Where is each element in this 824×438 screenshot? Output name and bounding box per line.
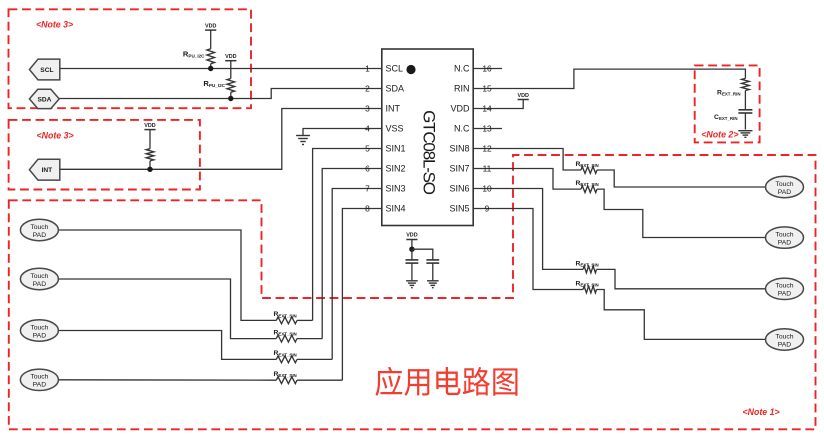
resistor R_EXT_SIN (SIN5) — [583, 286, 597, 293]
wire resistor pad4 to SIN4 — [297, 379, 342, 381]
wire SIN2 pin 6 down-left — [322, 169, 382, 339]
svg-text:SDA: SDA — [37, 96, 51, 103]
wire R to SCL junction — [210, 64, 212, 69]
svg-text:REXT_SIN: REXT_SIN — [274, 371, 297, 378]
node INT input tag — [29, 159, 59, 180]
node SCL input tag — [29, 59, 59, 80]
wire touch pad 3 to resistor — [58, 331, 276, 360]
svg-text:5: 5 — [365, 143, 370, 153]
svg-text:PAD: PAD — [778, 341, 792, 348]
wire resistor pad3 to SIN3 — [297, 358, 332, 360]
wire C2 to ground — [432, 263, 434, 280]
svg-text:CEXT_RIN: CEXT_RIN — [714, 114, 737, 121]
svg-text:Touch: Touch — [775, 333, 793, 340]
svg-text:VDD: VDD — [406, 232, 417, 238]
power VDD (decoupling) — [406, 239, 417, 241]
touch pad 1 — [20, 219, 58, 240]
wire touch pad 1 to resistor — [58, 230, 276, 320]
resistor R_EXT_SIN (SIN6) — [583, 266, 597, 273]
touch pad 3 — [20, 320, 58, 341]
svg-text:REXT_SIN: REXT_SIN — [274, 350, 297, 357]
wire VDD to cap junction — [411, 240, 413, 250]
resistor R_PU_I2C (SCL) — [207, 49, 215, 64]
wire R to INT junction — [149, 161, 151, 169]
svg-text:VSS: VSS — [386, 124, 404, 134]
note 1 region outline — [9, 155, 816, 429]
note 3 region box (SCL/SDA pull-ups) — [9, 9, 252, 108]
resistor R_EXT_SIN (SIN7) — [581, 186, 597, 193]
wire SCL tag to pin 1 — [60, 68, 382, 70]
resistor R_EXT_SIN (pad4) — [276, 377, 297, 384]
junction on INT — [147, 167, 152, 172]
svg-text:VDD: VDD — [450, 104, 470, 114]
touch pad 7 — [766, 278, 804, 299]
op IC U1 GTC08L-SO body — [382, 49, 473, 226]
svg-text:REXT_SIN: REXT_SIN — [576, 180, 599, 187]
capacitor C2 (decoupling) — [426, 259, 439, 261]
svg-text:REXT_SIN: REXT_SIN — [576, 161, 599, 168]
wire SDA tag to pin 2 — [59, 89, 382, 99]
capacitor C_EXT_RIN — [738, 109, 752, 111]
wire VDD to R_PU_I2C (SCL) — [210, 30, 212, 49]
svg-text:PAD: PAD — [33, 281, 47, 288]
svg-text:SIN7: SIN7 — [449, 164, 469, 174]
wire resistor pad1 to SIN1 — [297, 319, 313, 321]
wire pin 14 to VDD — [473, 100, 523, 109]
wire N.C pin 13 stub — [473, 128, 502, 130]
wire R to SDA junction — [230, 92, 232, 98]
wire SIN3 pin 7 down-left — [332, 189, 382, 360]
svg-text:REXT_RIN: REXT_RIN — [717, 90, 740, 97]
junction on SCL — [208, 66, 213, 71]
svg-text:REXT_SIN: REXT_SIN — [274, 311, 297, 318]
power VDD (INT pull-up) — [144, 129, 155, 131]
touch pad 8 — [766, 329, 804, 350]
svg-text:SIN8: SIN8 — [449, 144, 469, 154]
node SDA io tag — [29, 89, 59, 108]
svg-text:PAD: PAD — [778, 291, 792, 298]
svg-text:15: 15 — [482, 83, 492, 93]
capacitor C1 (decoupling) — [406, 259, 419, 261]
ground in note2 box — [738, 130, 752, 132]
svg-text:INT: INT — [42, 167, 53, 174]
svg-text:Touch: Touch — [30, 374, 48, 381]
wire resistor to touch pad 7 — [597, 269, 766, 288]
svg-text:10: 10 — [482, 183, 492, 193]
power VDD (SCL pull-up) — [205, 29, 216, 31]
svg-text:Touch: Touch — [30, 324, 48, 331]
touch pad 6 — [766, 227, 804, 248]
wire SIN7 pin 11 to resistor — [473, 169, 581, 190]
svg-text:<Note 3>: <Note 3> — [36, 20, 73, 30]
wire resistor pad2 to SIN2 — [297, 338, 322, 340]
wire junction to C1 — [411, 249, 413, 260]
svg-text:RIN: RIN — [454, 84, 470, 94]
svg-text:Touch: Touch — [30, 273, 48, 280]
svg-text:SCL: SCL — [40, 67, 53, 74]
svg-text:13: 13 — [482, 123, 492, 133]
svg-text:SIN5: SIN5 — [449, 204, 469, 214]
svg-text:1: 1 — [365, 63, 370, 73]
note 3 region box (INT pull-up) — [9, 120, 200, 190]
wire touch pad 2 to resistor — [58, 279, 276, 339]
svg-text:12: 12 — [482, 143, 492, 153]
junction on SDA — [228, 96, 233, 101]
IC pin-1 marker dot — [406, 65, 415, 74]
svg-text:PAD: PAD — [33, 232, 47, 239]
svg-text:SIN3: SIN3 — [386, 184, 406, 194]
svg-text:SDA: SDA — [386, 84, 405, 94]
wire VSS pin 4 to ground — [303, 129, 382, 136]
svg-text:Touch: Touch — [775, 283, 793, 290]
wire VDD to R (INT) — [149, 130, 151, 149]
power VDD (SDA pull-up) — [225, 60, 236, 62]
svg-text:RPU_I2C: RPU_I2C — [183, 50, 205, 59]
svg-text:INT: INT — [386, 104, 401, 114]
wire SIN1 pin 5 down-left — [313, 149, 382, 321]
wire R_EXT_RIN to C_EXT_RIN — [744, 91, 746, 110]
svg-text:PAD: PAD — [778, 239, 792, 246]
svg-text:SCL: SCL — [386, 64, 404, 74]
svg-text:<Note 1>: <Note 1> — [743, 407, 780, 417]
resistor R_PU_I2C (SDA) — [227, 79, 235, 93]
svg-text:VDD: VDD — [225, 54, 236, 60]
svg-text:GTC08L-SO: GTC08L-SO — [419, 110, 438, 195]
svg-text:2: 2 — [365, 83, 370, 93]
svg-text:14: 14 — [482, 103, 492, 113]
wire SIN5 pin 9 to resistor — [473, 209, 583, 290]
touch pad 2 — [20, 268, 58, 289]
svg-text:SIN6: SIN6 — [449, 184, 469, 194]
note 2 region box (RIN RC) — [695, 65, 760, 142]
resistor R_EXT_SIN (pad1) — [276, 317, 297, 324]
wire SIN6 pin 10 to resistor — [473, 189, 583, 270]
svg-text:REXT_SIN: REXT_SIN — [274, 329, 297, 336]
svg-text:<Note 3>: <Note 3> — [37, 130, 74, 140]
svg-text:Touch: Touch — [775, 181, 793, 188]
svg-text:7: 7 — [365, 183, 370, 193]
svg-text:4: 4 — [365, 123, 370, 133]
power VDD at pin 14 — [518, 99, 529, 101]
wire C_EXT_RIN to ground — [744, 113, 746, 130]
wire C1 to ground — [411, 263, 413, 280]
wire VDD to R_PU_I2C (SDA) — [230, 61, 232, 79]
resistor R_EXT_SIN (SIN8) — [581, 167, 597, 174]
svg-text:SIN4: SIN4 — [386, 204, 406, 214]
svg-text:6: 6 — [365, 163, 370, 173]
wire INT tag to pin 3 — [60, 109, 382, 170]
svg-text:RPU_I2C: RPU_I2C — [203, 79, 225, 88]
svg-text:VDD: VDD — [518, 93, 529, 99]
svg-text:N.C: N.C — [454, 124, 470, 134]
wire resistor to touch pad 8 — [597, 290, 766, 340]
svg-text:<Note 2>: <Note 2> — [701, 130, 738, 140]
resistor INT pull-up — [146, 149, 154, 161]
wire junction to C2 — [412, 249, 433, 260]
svg-text:REXT_SIN: REXT_SIN — [576, 260, 599, 267]
wire resistor to touch pad 5 — [597, 170, 766, 187]
wire N.C pin 16 stub — [473, 68, 502, 70]
touch pad 5 — [766, 176, 804, 197]
junction at caps — [409, 247, 414, 252]
svg-text:PAD: PAD — [33, 332, 47, 339]
wire SIN8 pin 12 to resistor — [473, 149, 581, 171]
wire RIN pin 15 to note2 network — [473, 69, 745, 88]
wire resistor to touch pad 6 — [597, 189, 766, 237]
svg-text:PAD: PAD — [33, 382, 47, 389]
ground below C2 — [427, 280, 439, 282]
svg-text:VDD: VDD — [205, 24, 216, 30]
svg-text:Touch: Touch — [775, 231, 793, 238]
resistor R_EXT_SIN (pad3) — [276, 356, 297, 363]
svg-text:3: 3 — [365, 103, 370, 113]
ground at VSS — [296, 135, 310, 137]
svg-text:SIN2: SIN2 — [386, 164, 406, 174]
svg-text:Touch: Touch — [30, 224, 48, 231]
resistor R_EXT_RIN — [742, 78, 750, 90]
svg-text:N.C: N.C — [454, 64, 470, 74]
svg-text:11: 11 — [483, 163, 492, 173]
svg-text:9: 9 — [485, 203, 490, 213]
wire SIN4 pin 8 down-left — [342, 209, 381, 381]
wire touch pad 4 to resistor — [58, 379, 276, 381]
ground below C1 — [406, 280, 418, 282]
resistor R_EXT_SIN (pad2) — [276, 335, 297, 342]
touch pad 4 — [20, 369, 58, 390]
svg-text:SIN1: SIN1 — [386, 144, 406, 154]
svg-text:8: 8 — [365, 203, 370, 213]
svg-text:PAD: PAD — [778, 189, 792, 196]
svg-text:REXT_SIN: REXT_SIN — [576, 280, 599, 287]
title text 应用电路图 — [375, 367, 402, 396]
svg-text:16: 16 — [482, 63, 492, 73]
svg-text:VDD: VDD — [144, 123, 155, 129]
